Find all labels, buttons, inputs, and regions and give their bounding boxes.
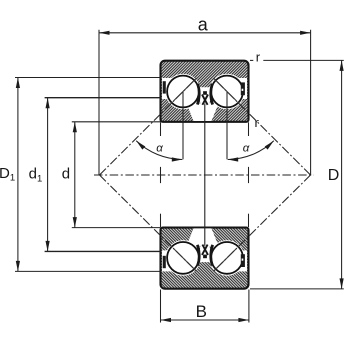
svg-text:d: d [62,166,70,183]
svg-text:α: α [243,143,250,155]
svg-text:r: r [255,115,260,130]
svg-text:r: r [256,50,261,65]
svg-text:a: a [198,14,209,34]
svg-text:D: D [328,167,340,184]
svg-text:B: B [196,302,207,321]
svg-text:α: α [156,143,163,155]
